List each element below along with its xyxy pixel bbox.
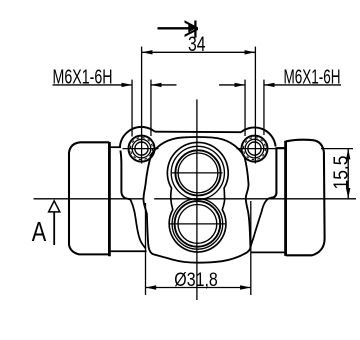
left dust cap: [69, 142, 109, 254]
body right inner curve: [250, 198, 270, 248]
dim 34 right arrow: [245, 50, 256, 54]
dim 15.5: [321, 149, 353, 199]
dim 15.5 top arrow: [346, 149, 350, 160]
dim diameter 31.8: [146, 201, 251, 295]
right bolt hole thread major circle: [245, 139, 264, 158]
section arrow top: [158, 21, 196, 38]
dim M6 left inner arrow: [151, 83, 162, 87]
right bolt hole boss circle: [242, 136, 268, 162]
top port circle outer: [175, 150, 220, 195]
right bolt hole thread marks: [244, 138, 266, 160]
section arrow top head: [188, 24, 196, 32]
left barrel bottom edge: [111, 250, 147, 252]
top boss inner ring: [171, 146, 224, 199]
bottom port circle outer: [175, 201, 221, 247]
body left inner curve: [130, 200, 145, 249]
right dust cap: [286, 140, 325, 256]
top port centerline: [172, 172, 223, 174]
section arrow A bottom-left: [49, 201, 60, 245]
horizontal main centerline: [34, 198, 357, 200]
dim M6X1-6H right: [219, 80, 341, 136]
left ear: [120, 127, 155, 147]
dim 34 left arrow: [142, 50, 153, 54]
saddle between ears: [155, 131, 241, 134]
dim M6 right inner arrow: [235, 83, 246, 87]
left bolt hole boss circle: [129, 136, 155, 162]
vertical main centerline: [196, 99, 198, 300]
dim 34 line: [142, 51, 256, 53]
dim M6 right outer arrow: [264, 83, 275, 87]
bottom port centerline: [170, 223, 226, 225]
right bolt hole v-centerline / 34 ext line: [254, 47, 256, 164]
body left edge with jog: [120, 151, 130, 200]
svg-text:Ø31,8: Ø31,8: [174, 270, 218, 291]
svg-text:A: A: [32, 216, 47, 247]
left cap bead (thick right edge): [108, 142, 111, 256]
svg-text:M6X1-6H: M6X1-6H: [53, 66, 113, 88]
dim 15.5 bottom arrow: [346, 188, 350, 199]
left barrel top edge: [111, 146, 121, 148]
dim M6X1-6H left: [53, 80, 177, 137]
left bolt hole h-centerline: [123, 148, 159, 150]
svg-text:A: A: [179, 20, 200, 37]
svg-text:15.5: 15.5: [330, 156, 352, 190]
left bolt hole v-centerline / 34 ext line: [141, 47, 143, 164]
right ear: [241, 127, 276, 146]
svg-text:M6X1-6H: M6X1-6H: [284, 66, 341, 88]
left bolt hole thread major circle: [132, 139, 151, 158]
body right edge with hook: [270, 147, 276, 198]
right barrel top edge: [276, 147, 285, 149]
right flange (thick): [284, 141, 287, 256]
right barrel bottom edge: [251, 251, 285, 253]
dim M6 left outer arrow: [122, 83, 133, 87]
right bolt hole h-centerline: [237, 148, 287, 150]
left bolt hole thread marks: [131, 138, 153, 160]
bottom boss inner ring: [172, 199, 223, 250]
bottom port circle inner: [178, 205, 217, 244]
top port circle inner: [178, 153, 218, 193]
left bolt hole drill circle: [135, 142, 148, 155]
dim 31.8 right arrow: [240, 285, 251, 289]
outer blob (cylinder body silhouette): [144, 137, 251, 263]
dim 31.8 left arrow: [146, 285, 157, 289]
right bolt hole drill circle: [248, 142, 261, 155]
peanut boss outline with waist fillets: [167, 142, 228, 252]
